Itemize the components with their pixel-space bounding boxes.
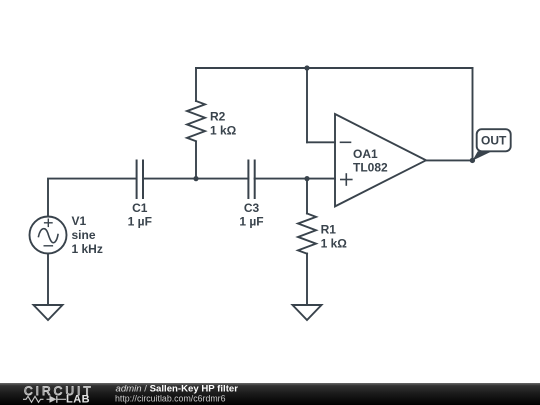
wire: V1 top to main net corner <box>48 179 137 217</box>
svg-text:1 kΩ: 1 kΩ <box>210 124 237 138</box>
wire: R1 bottom stem to ground <box>306 254 308 306</box>
svg-text:C3: C3 <box>244 201 260 215</box>
svg-text:TL082: TL082 <box>353 161 388 175</box>
junction: R2 / feedback / inverting branch <box>304 65 309 70</box>
resistor R2 <box>187 101 205 141</box>
label V1 value <box>72 214 103 256</box>
svg-text:OA1: OA1 <box>353 147 378 161</box>
label C3 value <box>239 201 263 228</box>
capacitor C1 <box>137 161 143 199</box>
ground (R1) <box>293 305 322 320</box>
wire: inverting input branch vertical <box>306 68 308 142</box>
wire: C1 right plate to C3 left plate <box>143 178 248 180</box>
wire: op-amp output to output node <box>426 159 473 161</box>
svg-text:C1: C1 <box>132 201 148 215</box>
svg-text:R1: R1 <box>321 223 337 237</box>
svg-text:sine: sine <box>72 228 96 242</box>
wire: feedback top horizontal <box>196 67 473 69</box>
node OUT junction dot <box>470 158 475 163</box>
wire: V1 bottom to ground <box>47 254 49 306</box>
node flag OUT <box>472 129 510 160</box>
junction: C1 / R2 / C3 <box>193 176 198 181</box>
wire: R2 top stem <box>195 68 197 101</box>
label R2 value <box>210 110 237 138</box>
label OA1 value <box>353 147 388 175</box>
wire: feedback right vertical to output node <box>472 68 474 160</box>
label R1 value <box>321 223 348 251</box>
wire: C3 right plate to op-amp non-inverting input <box>255 178 335 180</box>
wire: inverting input branch horizontal <box>307 141 335 143</box>
voltage source V1 <box>30 217 67 254</box>
svg-text:R2: R2 <box>210 110 226 124</box>
svg-text:OUT: OUT <box>481 134 507 148</box>
op-amp OA1 <box>335 114 426 206</box>
wire: R1 top stem <box>306 179 308 214</box>
logo CIRCUIT LAB <box>23 384 94 405</box>
svg-text:1 µF: 1 µF <box>128 215 152 229</box>
label C1 value <box>128 201 152 228</box>
svg-text:1 kHz: 1 kHz <box>72 242 103 256</box>
svg-text:LAB: LAB <box>66 394 90 405</box>
svg-text:V1: V1 <box>72 214 87 228</box>
ground (V1) <box>34 305 63 320</box>
wire: R2 bottom stem to main net <box>195 142 197 179</box>
junction: C3 / R1 / non-inverting input <box>304 176 309 181</box>
capacitor C3 <box>248 161 254 199</box>
svg-text:1 kΩ: 1 kΩ <box>321 237 348 251</box>
resistor R1 <box>298 214 316 254</box>
svg-text:http://circuitlab.com/c6rdmr6: http://circuitlab.com/c6rdmr6 <box>115 394 226 404</box>
footer bar <box>0 383 540 405</box>
svg-text:1 µF: 1 µF <box>239 215 263 229</box>
